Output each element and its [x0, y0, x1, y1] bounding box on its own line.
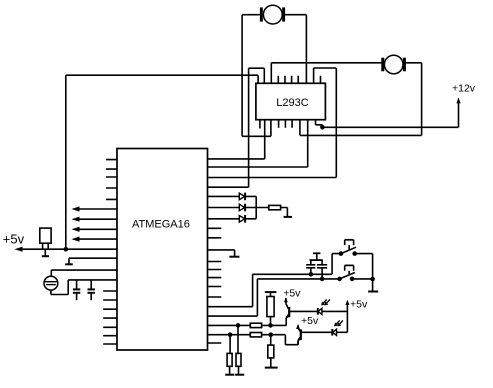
svg-text:ATMEGA16: ATMEGA16: [132, 219, 190, 231]
svg-text:+5v: +5v: [3, 232, 25, 247]
svg-text:+5v: +5v: [283, 288, 301, 300]
svg-text:+5v: +5v: [301, 315, 319, 327]
svg-text:L293C: L293C: [276, 97, 308, 109]
svg-text:+12v: +12v: [452, 83, 476, 95]
svg-text:+5v: +5v: [350, 299, 368, 311]
